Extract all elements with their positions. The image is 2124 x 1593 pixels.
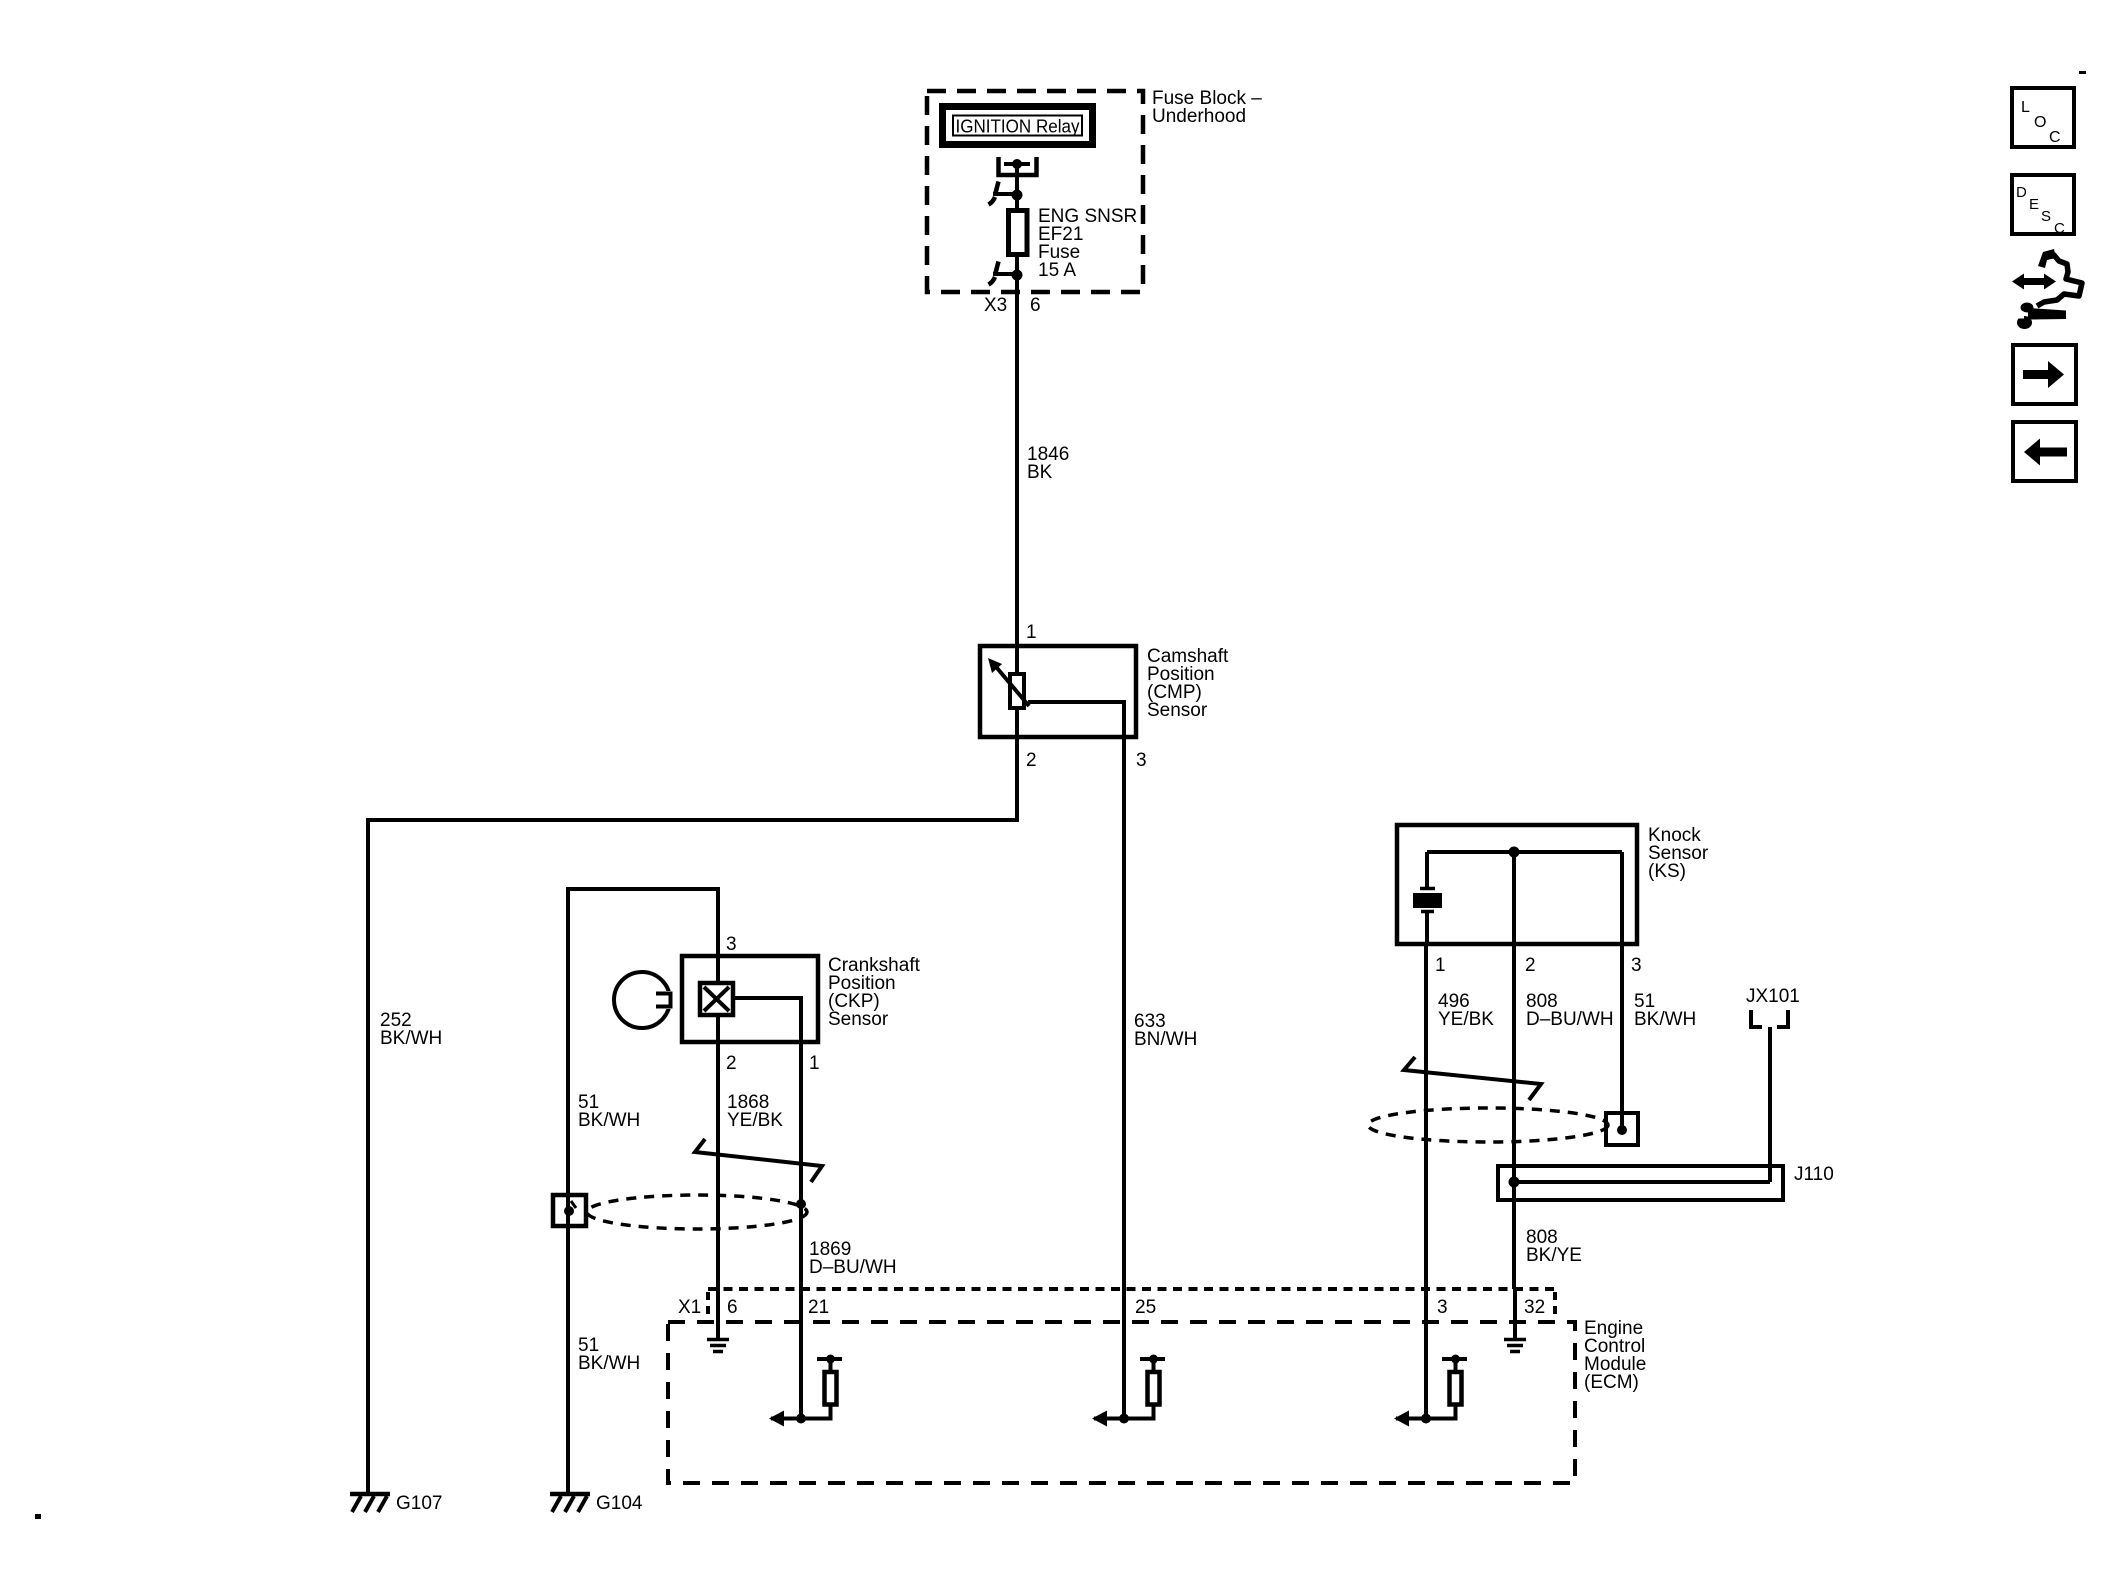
ECM connector row (dotted) [708, 1289, 1555, 1318]
CMP pin 3 label [1136, 750, 1147, 771]
CMP internal wire pin1 to element [1015, 646, 1019, 674]
wire: CKP loop top horizontal [568, 887, 720, 891]
svg-text:3: 3 [1136, 750, 1147, 771]
svg-text:Underhood: Underhood [1152, 106, 1246, 127]
svg-text:21: 21 [808, 1297, 829, 1318]
ECM input circuit at pin 25: node bar and arrow [1092, 1411, 1156, 1427]
ECM input circuit at pin 21: wire [799, 1289, 803, 1419]
svg-text:2: 2 [726, 1053, 737, 1074]
label: Crankshaft Position (CKP) Sensor [828, 955, 921, 1030]
svg-text:(KS): (KS) [1648, 861, 1686, 882]
label: 252 BK/WH [380, 1010, 442, 1049]
wire: KS pin2 808 D-BU/WH down through J110 [1512, 944, 1516, 1289]
ECM input circuit at pin 3: pull-up rail [1442, 1355, 1467, 1373]
label JX101 [1746, 986, 1800, 1007]
ECM input circuit at pin 3: wire [1424, 1289, 1428, 1419]
wire: 252 BK/WH down to G107 [366, 818, 370, 1494]
svg-text:1: 1 [809, 1053, 820, 1074]
svg-text:3: 3 [1631, 955, 1642, 976]
label G107 [396, 1493, 442, 1514]
ECM pin 21 label [808, 1297, 829, 1318]
svg-text:O: O [2034, 114, 2046, 131]
fuse block underhood dashed box [927, 91, 1143, 292]
ECM input circuit at pin 3: resistor [1450, 1372, 1462, 1405]
icon box back arrow [2013, 422, 2076, 481]
label: 496 YE/BK [1438, 991, 1494, 1030]
ECM module dashed box [668, 1322, 1575, 1483]
wire: CMP pin 2 down [1015, 737, 1019, 822]
ECM input circuit at pin 25: pull-up rail [1140, 1355, 1165, 1373]
svg-text:BN/WH: BN/WH [1134, 1029, 1197, 1050]
icon box DESC [2012, 175, 2074, 237]
CKP pin 3 label [726, 934, 737, 955]
connector JX101 [1751, 1010, 1788, 1027]
ECM pin 25 label [1135, 1297, 1156, 1318]
stray mark bottom left [35, 1514, 41, 1519]
shield drain splice dot on 1869 wire [796, 1199, 806, 1209]
ECM input circuit at pin 21: resistor to node [829, 1405, 833, 1419]
wire: CKP pin 2 1868 YE/BK to ECM pin 6 [716, 1042, 720, 1289]
icon box LOC [2012, 88, 2074, 147]
in-line connector on 51 BK/WH [553, 1195, 586, 1226]
label: Camshaft Position (CMP) Sensor [1147, 646, 1229, 721]
svg-text:G107: G107 [396, 1493, 442, 1514]
icon service wrench with arrows [2010, 249, 2082, 329]
CMP variable reluctance element (resistor) [1010, 674, 1024, 708]
ECM internal ground at pin 32 [1504, 1289, 1526, 1352]
label: Engine Control Module (ECM) [1584, 1318, 1646, 1393]
relay K: IGNITION Relay box [943, 107, 1093, 145]
wire: 51 BK/WH down to G104 [566, 887, 570, 1494]
junction bar J110 [1498, 1166, 1783, 1200]
svg-text:BK/WH: BK/WH [380, 1028, 442, 1049]
wire: fuse to X3 connector [1015, 257, 1019, 292]
ECM input circuit at pin 21: pull-up rail [817, 1355, 842, 1373]
svg-text:1: 1 [1026, 622, 1037, 643]
KS piezo element [1413, 852, 1442, 944]
wire: relay contact to connector [1015, 164, 1019, 208]
svg-text:6: 6 [727, 1297, 738, 1318]
wire: KS pin1 496 YE/BK to ECM pin 3 [1424, 944, 1428, 1289]
svg-text:32: 32 [1524, 1297, 1545, 1318]
twisted pair symbol CKP [695, 1139, 822, 1182]
CKP internal wire element to pin 1 [733, 998, 801, 1042]
CKP pin 1 label [809, 1053, 820, 1074]
svg-text:G104: G104 [596, 1493, 643, 1514]
svg-text:D–BU/WH: D–BU/WH [1526, 1009, 1614, 1030]
svg-text:YE/BK: YE/BK [727, 1110, 783, 1131]
CKP reluctor ring (circle with notch) [614, 972, 676, 1028]
CKP internal wire pin3 to element [716, 956, 720, 983]
svg-text:3: 3 [1437, 1297, 1448, 1318]
label: 808 D-BU/WH [1526, 991, 1614, 1030]
CMP internal wire element to pin 2 [1015, 708, 1019, 737]
label: Fuse Block - Underhood [1152, 88, 1262, 127]
twisted pair symbol KS [1404, 1057, 1541, 1100]
svg-text:6: 6 [1030, 295, 1041, 316]
shield termination box KS [1606, 1113, 1638, 1145]
svg-text:S: S [2041, 208, 2051, 225]
CKP pin 2 label [726, 1053, 737, 1074]
svg-text:25: 25 [1135, 1297, 1156, 1318]
svg-text:D–BU/WH: D–BU/WH [809, 1257, 897, 1278]
svg-text:BK/YE: BK/YE [1526, 1245, 1582, 1266]
ECM input circuit at pin 3: node bar and arrow [1394, 1411, 1458, 1427]
CMP pin 2 label [1026, 750, 1037, 771]
svg-text:C: C [2054, 220, 2065, 237]
svg-text:C: C [2049, 129, 2061, 146]
label: 51 BK/WH (lower) [578, 1335, 640, 1374]
svg-text:YE/BK: YE/BK [1438, 1009, 1494, 1030]
label: 51 BK/WH (KS) [1634, 991, 1696, 1030]
ECM pin 6 label [727, 1297, 738, 1318]
stray mark top right [2079, 71, 2086, 74]
KS internal bus [1427, 847, 1622, 858]
label G104 [596, 1493, 643, 1514]
in-line connector below fuse [989, 262, 1023, 285]
KS internal wire to pin 3 [1620, 852, 1624, 944]
label: 808 BK/YE [1526, 1227, 1582, 1266]
svg-text:1: 1 [1435, 955, 1446, 976]
CKP internal wire element to pin 2 [716, 1015, 720, 1042]
ground G104 [550, 1494, 590, 1512]
CKP pickup element (crossed box) [700, 983, 733, 1015]
svg-text:BK/WH: BK/WH [1634, 1009, 1696, 1030]
KS internal wire to pin 2 [1512, 852, 1516, 944]
svg-text:IGNITION Relay: IGNITION Relay [956, 117, 1080, 137]
KS pin 2 label [1525, 955, 1536, 976]
svg-text:2: 2 [1026, 750, 1037, 771]
ECM input circuit at pin 21: node bar and arrow [769, 1411, 833, 1427]
wire: KS pin3 shield drain 51 BK/WH [1620, 944, 1624, 1130]
svg-text:D: D [2016, 184, 2027, 201]
crankshaft position sensor CKP box [682, 956, 818, 1042]
pin label X3 [984, 295, 1007, 316]
KS pin 1 label [1435, 955, 1446, 976]
svg-text:BK: BK [1027, 462, 1053, 483]
svg-text:Sensor: Sensor [1147, 700, 1208, 721]
svg-text:BK/WH: BK/WH [578, 1353, 640, 1374]
shield ellipse KS [1368, 1108, 1608, 1142]
wire: loop down to CKP pin 3 [716, 887, 720, 956]
label: 51 BK/WH (upper) [578, 1092, 640, 1131]
wire: horizontal run to left 252 BK/WH [368, 818, 1019, 822]
svg-text:BK/WH: BK/WH [578, 1110, 640, 1131]
label: fuse value [1038, 206, 1137, 281]
KS pin 3 label [1631, 955, 1642, 976]
shield ellipse CKP [587, 1195, 807, 1229]
svg-text:15 A: 15 A [1038, 260, 1076, 281]
ECM input circuit at pin 25: resistor to node [1152, 1405, 1156, 1419]
ECM input circuit at pin 25: wire [1122, 1289, 1126, 1419]
ECM pin 32 label [1524, 1297, 1545, 1318]
icon box next arrow [2013, 345, 2076, 404]
fuse ENG SNSR EF21 15A [1009, 211, 1028, 255]
svg-text:3: 3 [726, 934, 737, 955]
CMP pin 1 label [1026, 622, 1037, 643]
ECM pin 3 label [1437, 1297, 1448, 1318]
svg-text:J110: J110 [1794, 1164, 1834, 1185]
label: 1846 BK [1027, 444, 1069, 483]
svg-text:X3: X3 [984, 295, 1007, 316]
label: 1868 YE/BK [727, 1092, 783, 1131]
ECM input circuit at pin 25: resistor [1148, 1372, 1160, 1405]
ECM internal ground at pin 6 [707, 1289, 729, 1352]
ECM input circuit at pin 21: resistor [825, 1372, 837, 1405]
label J110 [1794, 1164, 1834, 1185]
svg-text:JX101: JX101 [1746, 986, 1800, 1007]
svg-text:Sensor: Sensor [828, 1009, 889, 1030]
CMP internal wire to pin 3 [1028, 702, 1124, 737]
pin label 6 (fuse block) [1030, 295, 1041, 316]
label: Knock Sensor (KS) [1648, 825, 1709, 882]
svg-text:L: L [2021, 99, 2030, 116]
ground G107 [350, 1494, 390, 1512]
relay contact terminal (cup) [999, 157, 1037, 175]
label X1 [678, 1297, 701, 1318]
CMP element arrow [988, 658, 1029, 706]
camshaft position sensor CMP box [980, 646, 1136, 737]
wire 1846 BK: fuse block to CMP pin 1 [1015, 292, 1019, 646]
ECM input circuit at pin 3: resistor to node [1454, 1405, 1458, 1419]
svg-text:(ECM): (ECM) [1584, 1372, 1639, 1393]
svg-text:X1: X1 [678, 1297, 701, 1318]
label: 633 BN/WH [1134, 1011, 1197, 1050]
wire: CMP pin 3 down 633 BN/WH to ECM pin 25 [1122, 737, 1126, 1289]
in-line connector above fuse [989, 182, 1023, 205]
knock sensor KS box [1397, 825, 1637, 944]
svg-text:E: E [2029, 196, 2039, 213]
svg-text:2: 2 [1525, 955, 1536, 976]
wire: CKP pin 1 1869 D-BU/WH to ECM pin 21 [799, 998, 803, 1289]
wire: JX101 to J110 [1768, 1027, 1772, 1182]
label: 1869 D-BU/WH [809, 1239, 897, 1278]
